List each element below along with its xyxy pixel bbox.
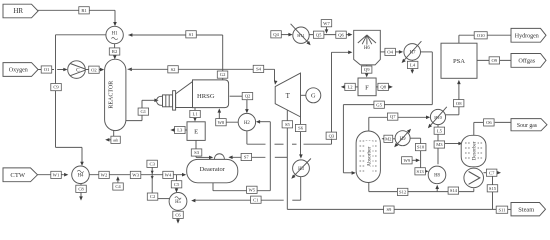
svg-text:Oxygen: Oxygen [9, 68, 28, 74]
svg-text:W2: W2 [101, 173, 108, 178]
stream label C6 [173, 211, 184, 218]
svg-text:M3: M3 [436, 142, 443, 147]
svg-text:S6: S6 [298, 126, 304, 131]
stream label Q8 [378, 83, 389, 90]
deaerator [187, 159, 238, 182]
svg-text:Q9: Q9 [364, 67, 370, 72]
stream label S3 [191, 149, 202, 156]
stream label M3 [434, 141, 445, 148]
svg-text:Q6: Q6 [338, 32, 344, 37]
wire H10 bottom to H8 (streams L5,M3) [437, 125, 439, 165]
svg-text:S13: S13 [417, 169, 425, 174]
wire desorber overhead to sour gas (stream O6) [474, 122, 511, 135]
exchanger H8 [428, 166, 446, 184]
svg-text:O10: O10 [477, 33, 486, 38]
heat-exchanger H2 [238, 113, 255, 130]
scrubber H6 [354, 30, 381, 65]
stream label S9 [384, 206, 395, 213]
svg-text:S10: S10 [417, 145, 425, 150]
stream label S5 [282, 121, 293, 128]
wire reactor bottom ash outlet [105, 130, 114, 141]
stream label S11 [496, 206, 508, 213]
flag Steam [511, 203, 546, 216]
wire reactor outlet to burner (stream G1) [125, 99, 159, 121]
wire junction to H5 top (stream C5) [175, 175, 179, 193]
wire F out right (stream Q8) [376, 85, 393, 89]
stream label O10 [474, 32, 487, 39]
reboiler pump [464, 168, 484, 188]
wire H1 right from HRSG junction (stream S1) [128, 33, 223, 37]
deaerator dome [214, 154, 224, 160]
stream label O6 [484, 119, 495, 126]
stream label W7 [321, 20, 332, 27]
svg-text:Deaerator: Deaerator [200, 166, 226, 173]
svg-text:H1: H1 [112, 32, 118, 37]
generator box E [187, 122, 205, 141]
svg-text:S12: S12 [399, 190, 407, 195]
wire H11 to H6 (streams Q5,Q6) [309, 33, 352, 37]
svg-text:Desorber: Desorber [472, 141, 478, 160]
wire H6 bottoms to F (stream Q9) [365, 65, 369, 78]
svg-text:Steam: Steam [518, 206, 534, 213]
stream label W9 [402, 157, 413, 164]
svg-text:W8: W8 [218, 120, 225, 125]
stream label C9 [51, 84, 62, 91]
svg-text:Absorber: Absorber [367, 146, 373, 166]
stream label C4 [113, 183, 124, 190]
wire H7 condensate out (stream L4) [411, 60, 415, 74]
svg-text:T: T [286, 92, 291, 100]
svg-text:Q4: Q4 [273, 32, 279, 37]
stream label O1 [41, 66, 52, 73]
wire H4 bottom out (stream C8) [79, 184, 83, 201]
stream label S2 [168, 66, 179, 73]
svg-text:S5: S5 [285, 122, 291, 127]
svg-text:C9: C9 [53, 85, 59, 90]
svg-text:O8: O8 [456, 101, 462, 106]
wire Q4 source to H11 [281, 33, 293, 37]
svg-text:Q2: Q2 [245, 94, 251, 99]
wire turbine bottom steam down (streams S5,S9) [287, 110, 511, 209]
svg-text:L1: L1 [193, 112, 199, 117]
wire reboiler condensate out (stream C7) [484, 171, 502, 175]
stream label L4 [407, 61, 418, 68]
svg-text:Offgas: Offgas [518, 58, 535, 65]
svg-text:C6: C6 [175, 212, 181, 217]
wire HRSG gas to H2 (stream Q2) [230, 96, 249, 113]
flag CTW [3, 168, 38, 182]
ash outlet box [111, 136, 120, 143]
heat-exchanger H4 [72, 166, 90, 184]
stream label C2 [147, 193, 158, 200]
svg-text:S14: S14 [450, 188, 458, 193]
stream label W8 [216, 119, 227, 126]
wire absorber bottoms to reboiler (streams S12,S14) [369, 182, 474, 191]
flag Oxygen [3, 63, 38, 77]
svg-text:Q8: Q8 [380, 85, 386, 90]
svg-text:H2: H2 [244, 121, 250, 126]
generator G [301, 88, 321, 103]
svg-text:F: F [365, 85, 369, 92]
wire F out left (stream L2) [341, 85, 358, 89]
svg-text:Q3: Q3 [329, 133, 335, 138]
wire W7 injection [325, 27, 329, 34]
svg-text:Q5: Q5 [316, 32, 322, 37]
svg-text:S4: S4 [256, 67, 262, 72]
stream label S12 [397, 188, 408, 195]
steam turbine T [275, 73, 300, 117]
reactor [105, 59, 126, 130]
svg-text:O6: O6 [486, 120, 492, 125]
wire E outlet left (stream L3) [170, 128, 187, 132]
cooler H7 [402, 41, 422, 63]
flag Offgas [511, 54, 546, 68]
stream label O8 [453, 100, 464, 107]
stream label S6 [295, 124, 306, 131]
stream label Q5 [313, 31, 324, 38]
wire PSA to offgas (stream O9) [477, 59, 511, 61]
svg-text:C7: C7 [489, 170, 495, 175]
svg-text:HR: HR [13, 7, 23, 15]
HRSG [176, 80, 229, 108]
stream label G5 [374, 101, 385, 108]
svg-text:W1: W1 [53, 173, 60, 178]
svg-text:H4: H4 [78, 174, 84, 179]
stream label G1 [138, 108, 149, 115]
wire W9 join [412, 159, 420, 163]
wire CTW to H4 (stream W1) [37, 173, 68, 177]
wire H10 to PSA (stream O8) [446, 80, 461, 115]
wire H6 to H7 (stream O4) [380, 50, 403, 54]
svg-text:W4: W4 [165, 173, 172, 178]
wire PSA to hydrogen (stream O10) [459, 35, 511, 43]
wire H2 to HRSG feedwater (stream W8) [218, 108, 239, 122]
stream label R2 [109, 48, 120, 55]
wire absorber overhead to H10 (stream Q7) [369, 116, 430, 133]
heat-exchanger H1 [106, 26, 123, 43]
svg-text:S7: S7 [244, 155, 250, 160]
svg-text:S1: S1 [189, 32, 195, 37]
stream label R1 [79, 7, 90, 14]
svg-text:R2: R2 [112, 49, 118, 54]
wire H3 condensate to H5 (stream C1) [191, 177, 301, 203]
wire turbine exhaust to H3 (stream S6) [299, 117, 303, 159]
svg-text:C8: C8 [78, 186, 84, 191]
svg-text:H5: H5 [175, 200, 181, 205]
wire H4 to deaerator (streams W2,W3,W4) [89, 173, 186, 177]
svg-text:REACTOR: REACTOR [109, 81, 115, 109]
stream label Q9 [361, 66, 372, 73]
stream label W1 [51, 171, 62, 178]
wire HR to H1 (stream R1) [38, 10, 117, 26]
svg-text:W9: W9 [403, 158, 410, 163]
svg-text:C4: C4 [115, 184, 121, 189]
wire C2 from junction to H5 [152, 175, 169, 199]
stream label S1 [186, 31, 197, 38]
svg-text:Sour gas: Sour gas [517, 123, 538, 129]
absorber column [356, 131, 380, 183]
stream label S10 [415, 144, 426, 151]
stream label O9 [489, 57, 500, 64]
stream label W2 [99, 171, 110, 178]
svg-text:W5: W5 [248, 187, 255, 192]
stream label S14 [448, 187, 459, 194]
svg-text:R1: R1 [81, 8, 87, 13]
wire H1 to reactor top (stream R2) [113, 44, 117, 60]
flag Sour gas [511, 119, 547, 131]
svg-text:C1: C1 [253, 197, 259, 202]
svg-text:G2: G2 [220, 72, 226, 77]
stream label W4 [163, 171, 174, 178]
svg-text:L4: L4 [410, 63, 416, 68]
wire E to deaerator dome (stream S3) [196, 140, 213, 159]
wire C4 join [116, 176, 120, 182]
stream label Q7 [387, 113, 398, 120]
stream label Q4 [271, 31, 282, 38]
stream label O4 [385, 48, 396, 55]
stream label C7 [486, 169, 497, 176]
svg-text:C3: C3 [150, 161, 156, 166]
wire lean solvent to H8 (streams S10,S13) [421, 138, 429, 173]
wire to desorber feed [438, 142, 463, 146]
svg-text:ash: ash [113, 138, 118, 142]
wire H9 to absorber (stream S12b) [382, 137, 396, 141]
svg-text:Q7: Q7 [390, 114, 396, 119]
stream label W3 [130, 171, 141, 178]
stream label G2 [217, 71, 228, 78]
svg-text:S3: S3 [194, 150, 200, 155]
svg-text:S9: S9 [386, 207, 392, 212]
svg-text:L5: L5 [437, 128, 443, 133]
wire compressor to reactor (stream O2) [85, 68, 104, 72]
svg-text:HRSG: HRSG [197, 93, 215, 100]
wire reactor recycle / turbine feed (streams S2,S4) [128, 68, 278, 85]
stream label S15 [487, 185, 498, 192]
stream label L2 [345, 83, 356, 90]
stream label W5 [247, 186, 258, 193]
wire H9 right to lean line [410, 137, 421, 139]
svg-text:S15: S15 [489, 186, 497, 191]
stream label C8 [76, 185, 87, 192]
stream label M2 [384, 135, 393, 142]
svg-text:G: G [311, 93, 316, 100]
svg-text:W7: W7 [323, 21, 330, 26]
wire H7 cooled gas to absorber (stream G5) [343, 52, 432, 175]
svg-text:O2: O2 [91, 67, 97, 72]
wire H2 bottom to H6 (stream Q3, with line hops) [247, 51, 353, 145]
compressor C1 [68, 61, 86, 79]
stream label Q6 [336, 31, 347, 38]
svg-text:H6: H6 [364, 46, 370, 51]
svg-text:W3: W3 [132, 173, 139, 178]
stream label L5 [434, 127, 445, 134]
svg-text:PSA: PSA [453, 58, 465, 65]
svg-text:CTW: CTW [10, 172, 25, 179]
svg-text:S11: S11 [499, 207, 507, 212]
cooler H11 [291, 24, 311, 45]
svg-text:G5: G5 [376, 102, 382, 107]
svg-text:Hydrogen: Hydrogen [515, 33, 539, 39]
svg-text:L3: L3 [177, 128, 183, 133]
svg-text:M2: M2 [385, 136, 392, 141]
filter F [358, 78, 376, 96]
wire steam riser to reboiler (stream S15) [492, 173, 494, 210]
stream label Q3 [326, 132, 337, 139]
stream label Q2 [242, 93, 253, 100]
condenser H3 [291, 159, 311, 179]
svg-text:C: C [76, 68, 80, 74]
wire H1 left condensate down to H4 (stream C9) [56, 35, 106, 166]
stream label C3 [147, 160, 158, 167]
wire H5 bottom out (stream C6) [176, 210, 180, 223]
stream label S4 [253, 65, 264, 72]
svg-text:C5: C5 [174, 182, 180, 187]
svg-text:O9: O9 [491, 58, 497, 63]
svg-text:G1: G1 [140, 109, 146, 114]
stream label O2 [89, 66, 100, 73]
svg-text:O1: O1 [44, 67, 50, 72]
flag HR [3, 4, 38, 18]
svg-text:S2: S2 [171, 67, 177, 72]
stream label L1 [190, 110, 201, 117]
cooler H9 [394, 129, 411, 148]
flag Hydrogen [511, 28, 546, 42]
svg-text:L2: L2 [347, 85, 353, 90]
wire HRSG top riser to junction [222, 35, 224, 80]
stream label L3 [175, 126, 186, 133]
wire HRSG flue to E (stream L1) [193, 108, 197, 122]
svg-text:H8: H8 [434, 174, 440, 179]
svg-text:C2: C2 [150, 194, 156, 199]
stream label S13 [415, 168, 426, 175]
heater H10 [428, 107, 447, 128]
stream label C5 [171, 181, 182, 188]
wire turbine extraction to deaerator dome (stream S7) [228, 156, 287, 160]
heat-exchanger H5 [169, 193, 187, 211]
svg-text:O4: O4 [387, 50, 393, 55]
stream label C1 [251, 196, 262, 203]
stream label S7 [241, 153, 252, 160]
PSA unit [441, 43, 477, 78]
svg-text:E: E [194, 129, 198, 136]
burner [157, 91, 176, 110]
wire deaerator bottom feedwater riser to H2 (stream W5) [213, 120, 270, 191]
wire oxygen feed (stream O1) [38, 68, 68, 72]
desorber column [461, 135, 486, 167]
wire C3 into junction [151, 167, 154, 179]
